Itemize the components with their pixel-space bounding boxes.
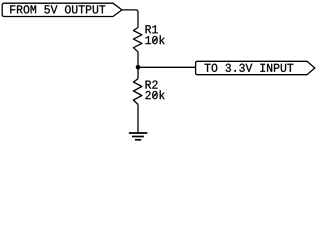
wire R1 bottom to junction xyxy=(137,52,139,68)
label R1 xyxy=(146,25,158,33)
wire junction to R2 top xyxy=(137,67,139,79)
net flag TO 3.3V INPUT xyxy=(196,61,315,74)
value 10k xyxy=(145,35,164,44)
node junction dot xyxy=(136,65,141,70)
wire flag tip to R1 top xyxy=(122,10,138,28)
ground xyxy=(129,133,148,140)
resistor R2 xyxy=(133,79,142,105)
resistor R1 xyxy=(133,28,142,52)
label FROM 5V OUTPUT xyxy=(10,5,105,13)
label TO 3.3V INPUT xyxy=(205,64,294,72)
label R2 xyxy=(146,80,158,88)
wire R2 bottom to ground xyxy=(137,105,139,133)
value 20k xyxy=(145,90,164,99)
wire junction to right flag xyxy=(138,66,196,68)
net flag FROM 5V OUTPUT xyxy=(2,3,122,16)
